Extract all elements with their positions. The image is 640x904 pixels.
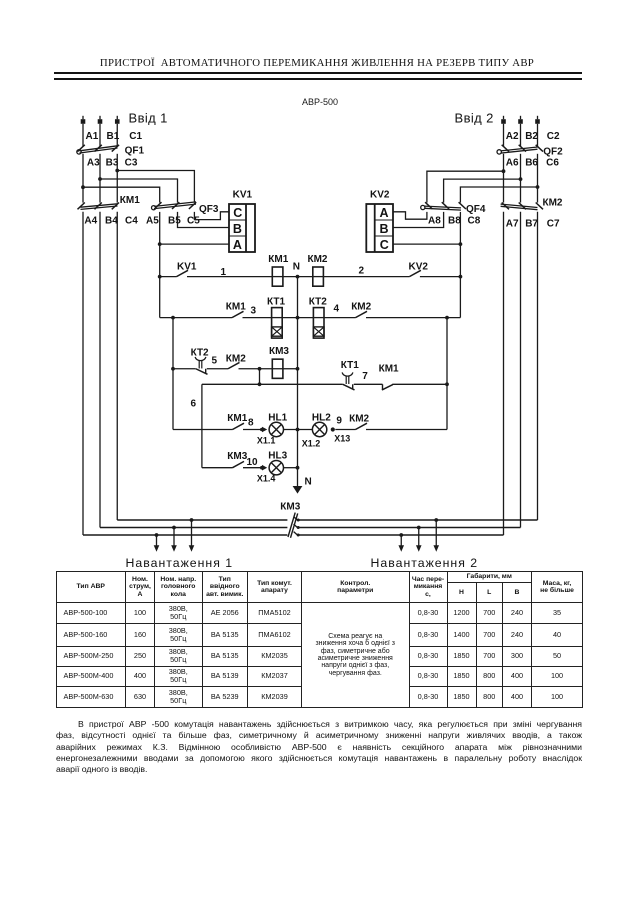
svg-text:2: 2 (359, 266, 365, 277)
svg-text:КМ1: КМ1 (268, 254, 288, 265)
svg-text:А7: А7 (506, 219, 519, 230)
wire through timer coil KT1 (272, 317, 283, 319)
svg-text:А: А (233, 238, 242, 252)
svg-text:КТ1: КТ1 (341, 360, 359, 371)
wire left sub-rail 2 (201, 384, 203, 467)
wire (284, 467, 298, 469)
svg-text:Навантаження 2: Навантаження 2 (371, 556, 479, 570)
svg-text:В: В (380, 222, 389, 236)
svg-text:С: С (233, 206, 242, 220)
svg-text:В: В (233, 222, 242, 236)
svg-text:С3: С3 (125, 158, 138, 169)
load-2 tap from bus B (416, 526, 422, 552)
svg-text:1: 1 (221, 267, 227, 278)
contact KM3 row5 (233, 461, 262, 467)
wire right control rail (from C8) (459, 244, 463, 318)
svg-text:В4: В4 (105, 215, 118, 226)
neutral N arrow (293, 477, 312, 494)
svg-text:QF2: QF2 (543, 147, 563, 158)
wire tap A6 to QF4 pole A8 (427, 169, 506, 202)
input-1 terminal phase А1 (81, 116, 86, 124)
svg-text:С: С (380, 238, 389, 252)
wire tap C6 to QF4 pole C8 (460, 185, 539, 203)
lamp HL3 (268, 451, 287, 475)
svg-text:N: N (305, 477, 312, 488)
input-2 terminal phase С2 (535, 116, 540, 124)
svg-text:С1: С1 (129, 131, 142, 142)
wire (207, 368, 228, 370)
load-2 tap from bus C (433, 518, 439, 552)
wire (82, 154, 84, 203)
wire (520, 154, 522, 203)
wire phase A7 down to bus A (503, 212, 505, 535)
svg-text:QF1: QF1 (125, 146, 145, 157)
svg-text:6: 6 (191, 399, 197, 410)
wire (503, 124, 505, 147)
wire tap A3 to QF3 pole A5 (81, 185, 160, 202)
svg-text:8: 8 (248, 418, 254, 429)
wire tap C3 to QF3 pole C5 (115, 169, 194, 203)
svg-text:КМ2: КМ2 (226, 353, 246, 364)
svg-text:А6: А6 (506, 158, 519, 169)
wire (283, 368, 298, 370)
wire left sub-rail (171, 318, 175, 430)
time contact KT2 (195, 357, 207, 374)
input-2 terminal phase А2 (501, 116, 506, 124)
timer coil KT1 (272, 308, 283, 339)
contact KM2 row4 (335, 423, 447, 429)
svg-text:КМ1: КМ1 (227, 413, 247, 424)
wire through coil KM1 (272, 276, 283, 278)
contact KM1 row2 (232, 311, 272, 317)
svg-text:Навантаження 1: Навантаження 1 (126, 556, 234, 570)
voltage relay KV1 box (229, 204, 255, 252)
svg-text:А1: А1 (86, 131, 99, 142)
load-1 tap from bus B (171, 526, 177, 552)
svg-text:С2: С2 (547, 131, 560, 142)
svg-text:А8: А8 (428, 215, 441, 226)
wire (324, 317, 355, 319)
wire QF4 C8 to KV2 cell C and control rail (393, 212, 462, 246)
svg-text:КМ2: КМ2 (308, 254, 328, 265)
coil KM3 (272, 359, 283, 378)
svg-text:КТ2: КТ2 (309, 296, 327, 307)
timer coil KT2 (313, 308, 324, 339)
svg-text:X1.1: X1.1 (257, 436, 276, 446)
svg-text:КТ1: КТ1 (267, 296, 285, 307)
svg-text:Ввід 2: Ввід 2 (455, 110, 494, 125)
circuit breaker QF3 (152, 202, 197, 210)
svg-text:В6: В6 (525, 158, 538, 169)
svg-text:N: N (293, 261, 300, 272)
node N row4 (296, 428, 300, 432)
contact KM1 row4 (233, 423, 262, 429)
load-1 tap from bus A (154, 533, 160, 552)
circuit breaker QF1 (77, 145, 119, 154)
node N row3 (296, 367, 300, 371)
wire (323, 276, 409, 278)
coil KM2 (313, 267, 324, 286)
wire QF3 C5 to KV1 cell C (194, 212, 229, 220)
wire left control rail (from A5) (158, 244, 162, 318)
svg-text:В8: В8 (448, 215, 461, 226)
svg-text:А2: А2 (506, 131, 519, 142)
svg-text:А: А (380, 206, 389, 220)
svg-text:С8: С8 (468, 215, 481, 226)
bus tie contactor KM3 (288, 513, 300, 538)
svg-text:В2: В2 (525, 131, 538, 142)
svg-text:А4: А4 (84, 215, 97, 226)
wire (503, 154, 505, 203)
svg-text:В7: В7 (525, 219, 538, 230)
svg-text:Ввід 1: Ввід 1 (129, 110, 168, 125)
lamp HL1 (268, 412, 287, 436)
svg-text:KV1: KV1 (233, 190, 253, 201)
contact KM1 row3b (382, 384, 447, 390)
wire phase B7 down to bus B (520, 212, 522, 528)
svg-text:5: 5 (212, 356, 218, 367)
wire through timer coil KT2 (313, 317, 324, 319)
connector X1.1 (257, 427, 276, 446)
wire neutral N vertical (297, 277, 299, 487)
wire (82, 124, 84, 147)
contact KM2 row3 (228, 362, 272, 370)
input-1 terminal phase В1 (98, 116, 103, 124)
svg-text:KV2: KV2 (370, 190, 390, 201)
svg-text:А5: А5 (146, 215, 159, 226)
load-2 tap from bus A (398, 533, 404, 552)
svg-text:КМ1: КМ1 (226, 301, 246, 312)
svg-text:А3: А3 (87, 158, 100, 169)
svg-text:HL1: HL1 (268, 412, 287, 423)
wire right sub-rail (445, 318, 449, 430)
wire through coil KM3 (272, 368, 283, 370)
wire (537, 154, 539, 203)
svg-text:КМ3: КМ3 (227, 451, 247, 462)
wire tap B3 to QF3 pole B5 (98, 177, 177, 203)
time contact KT1 (342, 372, 354, 390)
bus C (top) (117, 519, 537, 521)
connector X1.4 (257, 465, 276, 484)
wire (283, 276, 313, 278)
wire tap B6 to QF4 pole B8 (444, 177, 523, 202)
svg-text:КМ2: КМ2 (351, 301, 371, 312)
svg-text:HL2: HL2 (312, 412, 331, 423)
wire (520, 124, 522, 147)
wire (99, 124, 101, 147)
svg-text:В5: В5 (168, 215, 181, 226)
node N row5 (296, 466, 300, 470)
svg-text:С4: С4 (125, 215, 138, 226)
load-1 tap from bus C (189, 518, 195, 552)
wire row2 left (160, 316, 232, 320)
wire row3b (202, 383, 343, 385)
svg-text:КМ2: КМ2 (543, 198, 563, 209)
wire (537, 124, 539, 147)
circuit breaker QF4 (421, 202, 466, 210)
wire QF4 B8 to KV2 cell B (393, 212, 444, 228)
svg-text:КМ3: КМ3 (269, 346, 289, 357)
wire row5 left (202, 467, 233, 469)
svg-text:КМ1: КМ1 (120, 195, 140, 206)
svg-text:КМ1: КМ1 (379, 364, 399, 375)
wire QF4 A8 to KV2 cell A (393, 212, 427, 219)
contact KV2 (409, 270, 460, 276)
svg-text:С6: С6 (546, 158, 559, 169)
contact KM2 row2 (356, 311, 461, 319)
wire QF3 B5 to KV1 cell B (178, 212, 230, 228)
svg-text:X1.2: X1.2 (302, 439, 321, 449)
svg-text:9: 9 (336, 416, 342, 427)
contact KV1 (160, 270, 273, 276)
svg-text:КМ3: КМ3 (280, 502, 300, 513)
coil KM1 (272, 267, 283, 286)
input-1 terminal phase С1 (115, 116, 120, 124)
input-2 terminal phase В2 (518, 116, 523, 124)
svg-text:7: 7 (362, 371, 368, 382)
svg-text:QF3: QF3 (199, 204, 219, 215)
svg-text:3: 3 (251, 306, 257, 317)
wire (354, 383, 383, 385)
wire phase B4 down to bus B (99, 212, 101, 528)
svg-text:С5: С5 (187, 215, 200, 226)
svg-text:X13: X13 (334, 433, 350, 443)
svg-text:10: 10 (247, 457, 259, 468)
wire (116, 154, 118, 203)
circuit breaker QF2 (497, 145, 543, 154)
lamp HL2 (312, 412, 331, 436)
connector X13 (331, 427, 351, 443)
svg-text:4: 4 (334, 304, 340, 315)
svg-text:X1.4: X1.4 (257, 474, 276, 484)
contactor KM2 main contacts (501, 203, 543, 210)
wire through coil KM2 (313, 276, 324, 278)
wire QF3 A5 to KV1 cell A and control rail (158, 212, 229, 246)
contactor KM1 main contacts (78, 203, 120, 210)
wire phase C4 down to bus C (116, 212, 118, 520)
wire (116, 124, 118, 147)
wire (282, 317, 313, 319)
node N (293, 261, 300, 278)
wire row3 left (173, 368, 196, 370)
wire (284, 429, 313, 431)
bus A (bottom) (83, 534, 504, 536)
bus B (middle) (100, 527, 521, 529)
voltage relay KV2 box (366, 204, 393, 252)
wire phase A4 down to bus A (82, 212, 84, 535)
wire row4 left (173, 429, 233, 431)
node N row2 (296, 316, 300, 320)
wire stub row3 to row3b (258, 369, 262, 386)
wire phase C7 down to bus C (537, 212, 539, 520)
svg-text:KV2: KV2 (409, 261, 429, 272)
svg-text:QF4: QF4 (466, 204, 486, 215)
svg-text:С7: С7 (547, 219, 560, 230)
wire (99, 154, 101, 203)
